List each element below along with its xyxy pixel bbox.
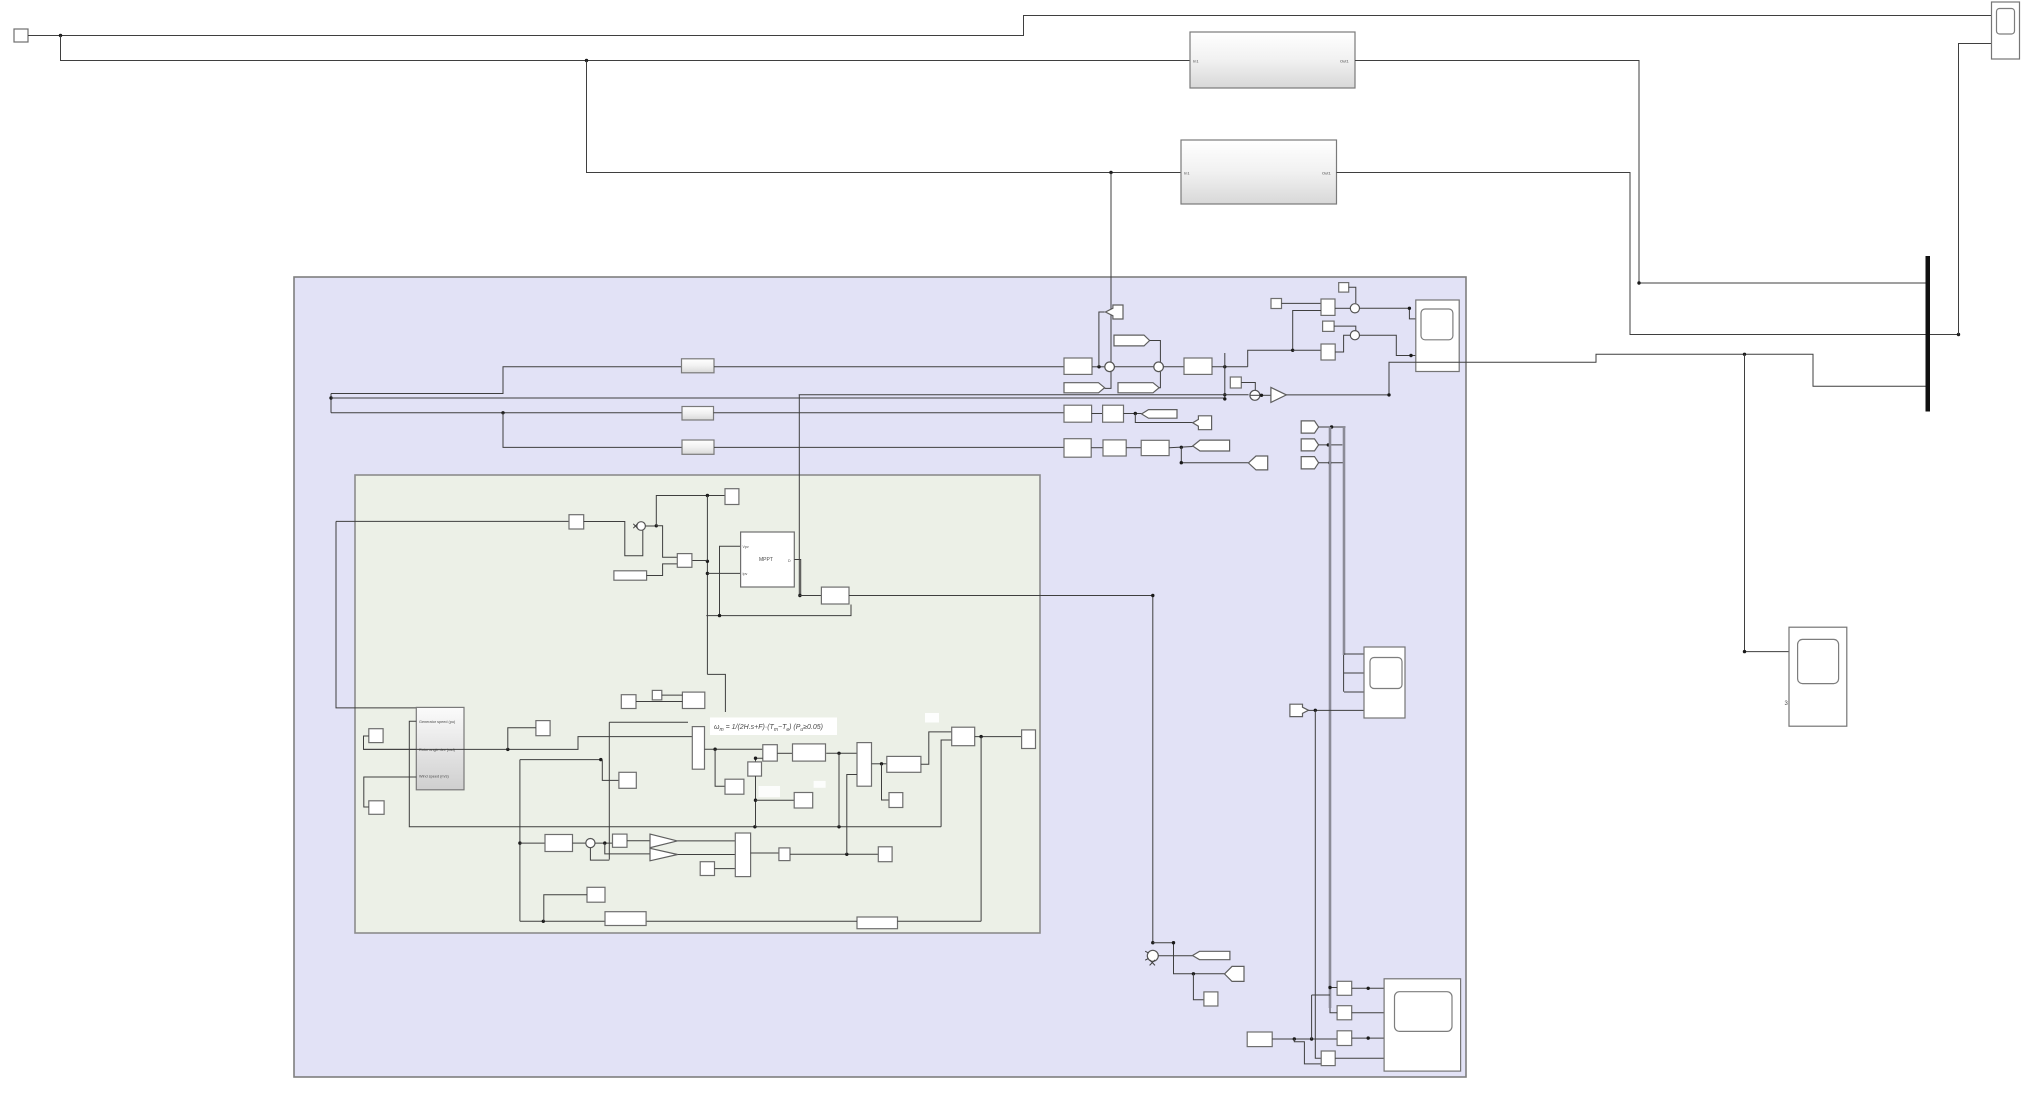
constant sq — [1230, 377, 1241, 388]
stub into GB2 from product chain — [656, 526, 677, 557]
junction feeding subsystem tag — [1109, 171, 1112, 174]
wire branch down to block A — [61, 36, 1191, 61]
rect Ra — [1064, 405, 1092, 422]
wire R2 out — [1212, 366, 1248, 368]
sq MC — [536, 721, 550, 736]
junction — [845, 853, 848, 856]
long vertical mid — [608, 722, 610, 859]
wire MC down — [508, 728, 536, 750]
wire R4 to tagB — [1169, 447, 1193, 448]
junction — [754, 799, 757, 802]
MPPT block — [741, 532, 795, 587]
display block top-right — [1992, 2, 2020, 59]
wire T4 to sum s2 — [1159, 372, 1160, 388]
wire branch down to block B — [587, 61, 1182, 173]
gain sq GB1 — [569, 515, 584, 529]
sq G10 — [700, 862, 714, 876]
wire Gq down — [755, 776, 757, 827]
unit delay 1 — [682, 359, 715, 373]
junction — [1223, 393, 1226, 396]
wire sum s1 vertical ports — [1105, 372, 1111, 389]
bus line B — [1343, 427, 1346, 655]
comparator triangle 2 — [650, 848, 678, 861]
junction — [542, 920, 545, 923]
wire gain out — [1286, 394, 1389, 396]
wire to sqD port2 — [1294, 1039, 1321, 1064]
block B (transfer fcn subsystem) — [1181, 140, 1337, 204]
inport In1 — [14, 29, 28, 42]
junction — [655, 524, 658, 527]
rect Rc — [1064, 439, 1091, 458]
wire FB2 right — [898, 920, 982, 922]
block GB2 — [677, 554, 692, 568]
svg-text:3: 3 — [1785, 701, 1789, 707]
sq GB6 — [652, 690, 662, 700]
junction — [837, 752, 840, 755]
junction — [501, 411, 504, 414]
svg-text:Out1: Out1 — [1322, 171, 1331, 176]
rate block R2 — [1184, 358, 1212, 374]
wire gs to G9 — [595, 842, 613, 844]
junction — [1180, 446, 1183, 449]
small sq S1 — [1339, 283, 1349, 293]
junction — [718, 614, 721, 617]
label patch — [925, 713, 939, 723]
rect Rd — [1103, 440, 1126, 456]
junction — [1293, 1037, 1296, 1040]
formula annotation — [710, 718, 837, 736]
wire s1 to s2 — [1114, 366, 1153, 368]
junction — [1223, 397, 1226, 400]
goto tag TB — [1193, 440, 1230, 451]
wire block A out to mux bar — [1355, 61, 1926, 284]
junction — [1180, 461, 1183, 464]
junction — [798, 594, 801, 597]
wire branch to comparator2 — [605, 843, 650, 854]
tall block TB1 — [692, 727, 704, 770]
constant block — [1247, 1032, 1272, 1047]
junction — [1387, 393, 1390, 396]
wire PI out — [975, 736, 1022, 738]
junction — [979, 735, 982, 738]
junction — [506, 748, 509, 751]
wire G13 left down — [544, 895, 587, 922]
from tag TC — [1248, 456, 1267, 470]
goto tag T1 — [1114, 335, 1150, 346]
small sq S2 — [1271, 299, 1282, 309]
junction — [1743, 650, 1746, 653]
block M2 — [1321, 344, 1335, 360]
subsystem area (green) — [355, 475, 1040, 933]
junction — [603, 841, 606, 844]
sum s2 — [1154, 362, 1164, 372]
wire TB2 out — [872, 763, 887, 765]
wire bus to scope4 port1 — [1344, 653, 1364, 655]
wire delay2 out — [714, 412, 1065, 414]
wire row 749 — [364, 737, 693, 750]
wire to MPPT port2 — [707, 572, 740, 574]
sum c2 — [1350, 331, 1359, 340]
constant wide GB3 — [614, 571, 647, 580]
sq Gq — [748, 762, 762, 776]
wire T1 to sum s2 — [1150, 341, 1161, 363]
junction — [713, 748, 716, 751]
junction — [1367, 1036, 1370, 1039]
wire drop to G6 — [882, 764, 890, 800]
goto tag T4 — [1118, 383, 1159, 393]
goto tag G3 — [1301, 457, 1318, 469]
junction — [706, 494, 709, 497]
sum s1 — [1105, 362, 1115, 372]
scope3 — [1384, 979, 1461, 1071]
sq G4 — [763, 745, 778, 761]
thin vertical link — [1311, 995, 1313, 1039]
wire GB1 to product — [584, 522, 643, 556]
wire demux out — [751, 852, 779, 854]
junction — [1291, 349, 1294, 352]
junction — [706, 560, 709, 563]
wire row 759 — [520, 759, 602, 761]
wire product out — [645, 525, 656, 527]
svg-text:In1: In1 — [1193, 59, 1199, 64]
junction — [753, 825, 756, 828]
sqC — [1337, 1031, 1352, 1046]
mux bar — [1926, 256, 1931, 412]
wire G7 up to PI — [921, 732, 952, 764]
demux block — [735, 833, 750, 877]
sq G12 — [878, 847, 892, 862]
block M1 — [1321, 299, 1335, 315]
wire branch down to scope2 — [1745, 354, 1790, 651]
wire long to mux bar — [1389, 354, 1926, 395]
junction — [1223, 365, 1226, 368]
wire up to display block — [1959, 44, 1992, 335]
junction — [1743, 353, 1746, 356]
wire X to tag — [1158, 955, 1192, 957]
feedback vertical — [519, 760, 521, 922]
wire s3 to gain — [1260, 394, 1271, 396]
svg-text:Generator speed (pu): Generator speed (pu) — [419, 720, 456, 724]
wire to rate limiter — [520, 842, 545, 844]
junction — [1328, 986, 1331, 989]
wire down to display sq — [1193, 974, 1204, 1000]
wire tri1 to demux — [677, 840, 735, 842]
sqA — [1337, 981, 1352, 995]
goto tag L2 — [1193, 951, 1230, 959]
sq G13 — [587, 887, 605, 902]
wire top stub — [609, 721, 688, 723]
wire R1 to sum — [1092, 366, 1105, 368]
wire up stub — [847, 775, 857, 855]
junction — [880, 762, 883, 765]
stub to bus — [1312, 994, 1330, 996]
wire Rd to R4 — [1126, 447, 1141, 449]
wire const to sum s3 — [1241, 383, 1255, 391]
svg-text:D: D — [788, 559, 791, 563]
sq G9 — [613, 834, 628, 847]
goto tag G1 — [1301, 421, 1318, 433]
junction — [1097, 365, 1100, 368]
svg-text:Rotor angle dev (rad): Rotor angle dev (rad) — [419, 748, 456, 752]
goto tag T3 — [1064, 383, 1105, 393]
vertical link on R2 wire — [1224, 353, 1226, 399]
wire sqD to scope3 — [1335, 1057, 1384, 1059]
wire Rb out — [1124, 413, 1142, 415]
wire to unit delay 2 — [331, 412, 682, 414]
wire W1 out long — [849, 595, 1153, 597]
wire In1 to top-right display — [28, 16, 1992, 36]
wire M2 to c2 — [1335, 335, 1350, 352]
wire to unit delay 3 — [503, 413, 682, 448]
junction — [518, 841, 521, 844]
outport sq — [1022, 730, 1036, 749]
junction — [706, 572, 709, 575]
stub busA to sqA — [1330, 987, 1337, 989]
wire Rc to Rd — [1091, 447, 1103, 449]
wire machine port1 loop — [409, 721, 941, 827]
wire delay1 out — [714, 366, 1064, 368]
junction — [1367, 987, 1370, 990]
label patch — [759, 786, 781, 797]
sq MB — [369, 801, 384, 815]
rect G11 — [779, 848, 790, 861]
junction — [1260, 394, 1263, 397]
product circle X — [1147, 950, 1158, 961]
wire FB bottom long — [520, 920, 857, 922]
wire loop up to PI — [941, 740, 952, 827]
gain triangle — [1271, 387, 1287, 402]
small sq S3 — [1323, 321, 1335, 331]
wire bus to scope4 port3 — [1344, 691, 1364, 693]
junction — [1310, 1037, 1313, 1040]
sq Gp — [725, 779, 744, 794]
block GB7 — [682, 692, 704, 708]
wire branch right — [1153, 943, 1225, 974]
wire sum feedback loop — [590, 848, 609, 860]
junction — [59, 34, 62, 37]
junction — [1134, 412, 1137, 415]
wire to unit delay 1 — [331, 367, 682, 394]
junction — [1409, 354, 1412, 357]
wire sqA to scope3 — [1352, 987, 1384, 989]
wire corner to bottom row — [707, 674, 725, 712]
scope4 — [1364, 647, 1405, 718]
wire F2 to scope4 — [1309, 709, 1365, 711]
wire into white block — [799, 595, 821, 597]
wire S3 to sum c2 — [1334, 326, 1356, 331]
long wire into sum s3 — [799, 394, 1249, 396]
svg-text:Vpv: Vpv — [743, 545, 749, 549]
svg-text:Wind speed (m/s): Wind speed (m/s) — [419, 775, 449, 779]
wire R2 path up to M1 — [1248, 311, 1321, 367]
sq G6 — [889, 793, 903, 808]
junction — [837, 825, 840, 828]
unit delay 2 — [682, 407, 714, 421]
wire MPPT out — [794, 560, 800, 596]
stub busA to sqB — [1330, 1008, 1337, 1013]
vertical bus down left of MPPT — [706, 496, 708, 675]
bus line A — [1329, 427, 1332, 1008]
display sq — [1204, 992, 1218, 1006]
rect G5 — [793, 744, 826, 761]
wire M1 to c1 — [1335, 307, 1350, 309]
wire lower horiz — [706, 605, 851, 616]
wire MPPT port1 feed — [720, 546, 741, 615]
wire MB to machine block — [364, 777, 417, 807]
wire Ra to Rb — [1092, 413, 1103, 415]
goto tag G2 — [1301, 439, 1318, 451]
wire branch to from tag F1 — [1135, 414, 1192, 423]
wire S1 to sum c1 — [1349, 287, 1356, 303]
comparator triangle 1 — [650, 834, 677, 848]
svg-text:MPPT: MPPT — [759, 557, 773, 563]
wire vertical feed — [336, 521, 416, 708]
subsystem area (purple) — [294, 277, 1466, 1077]
sum gs — [586, 839, 595, 848]
wire c1 to scope1 — [1360, 308, 1416, 319]
wide block FB2 — [857, 917, 898, 929]
wire sqC to scope3 — [1352, 1037, 1384, 1039]
junction — [329, 396, 332, 399]
rect Rb — [1103, 405, 1124, 422]
wire down into subsystem — [1110, 173, 1112, 363]
sq TR — [725, 489, 739, 505]
sqD — [1321, 1051, 1335, 1066]
sq GB5 — [621, 695, 636, 709]
wire branch down to tagC — [1181, 447, 1248, 462]
wire G1 to bus — [1319, 426, 1346, 428]
long feed wire — [331, 397, 1225, 399]
block A (transfer fcn subsystem) — [1190, 32, 1355, 88]
wire G2 to bus — [1319, 444, 1343, 446]
wire T2 to junction — [1099, 312, 1105, 367]
wire G4 out — [777, 752, 792, 754]
junction — [1327, 443, 1330, 446]
wire drop to loop — [838, 753, 840, 827]
wire G5 out — [826, 752, 857, 754]
wire drop to Gp — [715, 749, 725, 786]
wire down to display sq — [1315, 710, 1321, 1058]
wire c2 to scope1 — [1360, 335, 1416, 355]
wire to M2 — [1293, 349, 1321, 351]
junction — [1151, 594, 1154, 597]
white block W1 — [821, 587, 849, 604]
wire S2 to M1 — [1282, 302, 1322, 304]
unit delay 3 — [682, 440, 714, 454]
wire feedback down — [980, 737, 982, 922]
wire GB3 to GB2 — [647, 564, 678, 576]
wire constant to sqC — [1272, 1038, 1337, 1040]
junction — [1957, 333, 1960, 336]
junction — [1637, 281, 1640, 284]
wire vertical link — [330, 394, 332, 413]
wire sqB to scope3 — [1352, 1012, 1384, 1014]
wire GB2 out — [692, 560, 708, 562]
sq Gr — [794, 793, 813, 809]
from tag F1 — [1193, 416, 1212, 430]
wire GB6 to GB7 — [662, 694, 683, 696]
wire MA to machine block — [364, 736, 417, 749]
wire G10 to demux — [715, 868, 736, 870]
sum c1 — [1350, 304, 1359, 313]
vertical drop into green subsystem — [798, 395, 800, 596]
goto tag L1 — [1142, 410, 1177, 419]
svg-text:Out1: Out1 — [1340, 59, 1349, 64]
wire TB1 out — [705, 748, 763, 750]
tall block TB2 — [857, 743, 872, 787]
wire block B out — [1337, 173, 1959, 335]
product circle — [637, 522, 646, 531]
from tag F2 — [1290, 704, 1309, 716]
junction — [1330, 425, 1333, 428]
junction — [1314, 709, 1317, 712]
wire to Gr — [756, 799, 795, 801]
svg-text:Ipv: Ipv — [743, 572, 748, 576]
rect G7 — [887, 756, 921, 772]
junction — [754, 757, 757, 760]
wire bus to scope4 port2 — [1344, 672, 1364, 674]
wire to sum gs — [573, 842, 586, 844]
from tag T2 — [1106, 305, 1124, 319]
sum s3 — [1250, 390, 1260, 400]
label patch — [814, 781, 826, 788]
machine measurement block — [416, 707, 464, 789]
wire drop to G8 — [602, 760, 619, 781]
sqB — [1337, 1006, 1352, 1020]
wire s2 to R2 — [1163, 366, 1184, 368]
wire down right side — [1152, 596, 1154, 944]
scope1 — [1416, 300, 1459, 372]
wire tri2 to demux — [678, 854, 736, 856]
junction — [599, 758, 602, 761]
wire GB5 to GB7 — [636, 701, 682, 703]
scope2 — [1789, 627, 1847, 726]
junction — [1408, 307, 1411, 310]
wire G3 to bus — [1319, 462, 1344, 464]
junction — [1328, 461, 1331, 464]
junction — [1151, 941, 1154, 944]
wire up and right to sq TR — [656, 496, 725, 526]
rate block R1 — [1064, 358, 1092, 374]
sq MA — [369, 729, 383, 743]
wire G11 to G12 — [790, 853, 878, 855]
junction on A input wire — [585, 59, 588, 62]
wire G9 to comparator1 — [627, 840, 650, 842]
wire delay3 out — [714, 446, 1064, 448]
junction — [1192, 972, 1195, 975]
wide block FB1 — [605, 912, 646, 926]
svg-text:In1: In1 — [1184, 171, 1190, 176]
rate limiter — [545, 835, 573, 852]
goto tag L3 — [1225, 966, 1245, 981]
PI block — [952, 727, 975, 746]
wire G4 lower port to Gq — [756, 758, 763, 762]
sq G8 — [619, 772, 636, 788]
rect R4 — [1141, 440, 1169, 455]
wire feed into green subsystem — [336, 520, 569, 522]
